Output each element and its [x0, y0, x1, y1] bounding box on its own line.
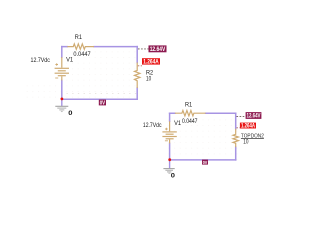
svg-text:R1: R1 — [75, 34, 83, 41]
svg-text:12.64V: 12.64V — [150, 47, 166, 53]
svg-text:0.0447: 0.0447 — [73, 51, 91, 58]
svg-text:10: 10 — [243, 139, 249, 146]
svg-text:10: 10 — [146, 75, 152, 82]
svg-text:12.7Vdc: 12.7Vdc — [143, 122, 162, 129]
svg-text:V1: V1 — [66, 56, 74, 63]
svg-text:V1: V1 — [174, 120, 182, 127]
svg-text:1.264A: 1.264A — [143, 60, 159, 66]
svg-text:12.7Vdc: 12.7Vdc — [31, 57, 50, 64]
svg-text:0V: 0V — [100, 101, 106, 107]
svg-text:0: 0 — [171, 173, 176, 180]
svg-text:0V: 0V — [203, 160, 208, 165]
svg-text:12.64V: 12.64V — [247, 114, 261, 120]
svg-text:0: 0 — [68, 110, 73, 117]
svg-text:0.0447: 0.0447 — [182, 118, 198, 125]
svg-text:1.264A: 1.264A — [241, 124, 255, 130]
svg-text:R1: R1 — [185, 102, 193, 109]
